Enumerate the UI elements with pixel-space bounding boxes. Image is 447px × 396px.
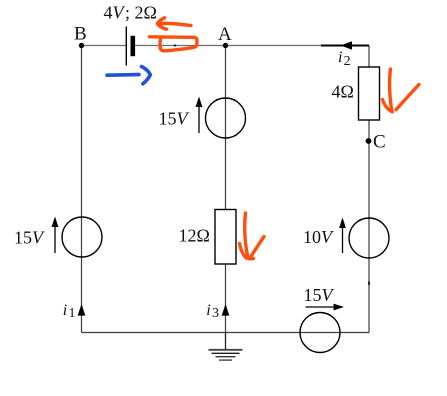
wire: left branch B down to bottom-left corner bbox=[81, 46, 83, 333]
voltage source U1 15V (left) bbox=[62, 217, 102, 257]
wire: bottom rail from bottom-left to bottom-right corner bbox=[82, 332, 370, 334]
svg-text:15V: 15V bbox=[14, 228, 45, 248]
svg-text:A: A bbox=[218, 24, 232, 45]
node C bbox=[366, 138, 372, 144]
battery B1 (4V; 2Ω) bbox=[126, 27, 135, 66]
current arrow i1 bbox=[78, 304, 86, 316]
annotation: blue arrow pointing right (below battery) bbox=[107, 67, 150, 84]
voltage arrow for U4 (points right) bbox=[306, 304, 345, 311]
svg-text:i2: i2 bbox=[338, 49, 351, 69]
svg-text:4Ω: 4Ω bbox=[332, 82, 354, 102]
annotation: orange down arrow beside R2 bbox=[240, 213, 265, 259]
voltage source U2 15V (middle) bbox=[206, 98, 246, 138]
wire: middle branch A down to ground node bbox=[225, 46, 227, 333]
svg-text:15V: 15V bbox=[304, 285, 335, 305]
svg-text:4V; 2Ω: 4V; 2Ω bbox=[104, 3, 157, 23]
annotation: orange down arrow beside R1 bbox=[383, 69, 420, 112]
voltage arrow for U1 bbox=[52, 217, 59, 254]
node B bbox=[79, 43, 84, 48]
junction dot on top wire bbox=[174, 44, 176, 46]
wire: node A to top-right corner bbox=[226, 45, 370, 47]
wire: top rail B to battery bbox=[82, 45, 127, 47]
wire: battery to node A bbox=[135, 45, 226, 47]
svg-text:B: B bbox=[74, 24, 87, 45]
node A bbox=[223, 43, 228, 48]
resistor R2 12Ω bbox=[215, 210, 236, 265]
svg-text:10V: 10V bbox=[303, 227, 334, 247]
current arrow i3 bbox=[222, 304, 230, 316]
annotation: orange arrow pointing left (above battery) bbox=[157, 18, 191, 29]
svg-text:i3: i3 bbox=[206, 302, 219, 321]
voltage source U3 10V (right) bbox=[349, 218, 389, 258]
current arrow i2 on top rail bbox=[321, 41, 369, 50]
svg-text:i1: i1 bbox=[63, 302, 76, 321]
svg-text:12Ω: 12Ω bbox=[179, 226, 210, 246]
wire: right branch top-right corner down to bottom-right corner bbox=[368, 46, 370, 333]
svg-text:15V: 15V bbox=[159, 109, 190, 129]
resistor R1 4Ω bbox=[359, 67, 380, 120]
joint tick on right branch bbox=[368, 282, 370, 286]
voltage source U4 15V (bottom) bbox=[300, 313, 340, 353]
ground bbox=[209, 333, 243, 361]
voltage arrow for U3 bbox=[339, 218, 346, 254]
svg-text:C: C bbox=[373, 132, 386, 153]
annotation: orange open loop scribble across top wire bbox=[150, 37, 198, 51]
voltage arrow for U2 bbox=[196, 97, 203, 134]
